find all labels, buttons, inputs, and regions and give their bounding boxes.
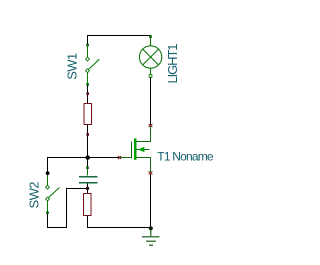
svg-text:LIGHT1: LIGHT1 [165, 44, 180, 84]
svg-text:SW2: SW2 [27, 182, 42, 209]
svg-text:SW1: SW1 [64, 53, 79, 80]
svg-text:T1 Noname: T1 Noname [157, 149, 214, 163]
